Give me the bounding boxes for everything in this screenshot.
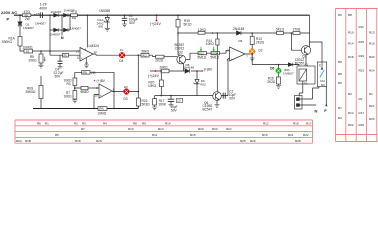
resistor R14 10K (216, 39, 219, 45)
wire R05 links (40, 76, 42, 109)
resistor R3 10K (73, 78, 77, 86)
svg-text:R12: R12 (263, 121, 269, 125)
capacitor C2 10uF (223, 93, 225, 99)
svg-text:P: P (7, 17, 10, 22)
svg-text:R22: R22 (303, 133, 309, 137)
svg-text:R10: R10 (128, 127, 134, 131)
wire R1 to sense row (20, 46, 24, 51)
svg-text:270Ω: 270Ω (293, 28, 301, 32)
svg-text:47Ω: 47Ω (24, 10, 31, 14)
diode D9 1N4007 (288, 63, 293, 67)
svg-text:220V AC: 220V AC (1, 10, 17, 15)
wire op2 output to D2 node (245, 54, 252, 58)
ground below zener (105, 28, 110, 31)
diode bridge top-left 1N4007 (54, 13, 59, 17)
svg-text:Q2: Q2 (179, 50, 183, 54)
resistor R15 5M1 (211, 52, 220, 55)
svg-text:D6: D6 (239, 39, 243, 43)
svg-text:D5: D5 (270, 67, 274, 71)
svg-text:2K2Ω: 2K2Ω (267, 80, 276, 84)
svg-text:R11: R11 (359, 25, 365, 29)
resistor R05 25K5 (39, 86, 43, 99)
svg-text:(+)8V: (+)8V (204, 67, 213, 71)
svg-text:HV: HV (124, 85, 128, 89)
wire pin10 link (94, 95, 99, 109)
svg-text:BC557: BC557 (295, 61, 305, 65)
wire Q2 collector to 5M1 row (186, 53, 190, 59)
svg-text:R25: R25 (240, 139, 246, 143)
svg-text:R13: R13 (369, 31, 375, 35)
bottom table row1 labels (37, 121, 312, 125)
bottom table row3 labels (55, 133, 309, 137)
svg-text:R7: R7 (338, 106, 342, 110)
wire 2M feedback row (75, 72, 114, 91)
node +24V top rail (150, 14, 161, 26)
svg-text:5K3Ω: 5K3Ω (142, 103, 151, 107)
node green mark R15 (213, 47, 215, 52)
wire R19 drop (177, 15, 179, 33)
wire bridge left drop (49, 15, 51, 51)
bottom table row2 labels (81, 127, 232, 131)
svg-text:R19: R19 (262, 133, 268, 137)
svg-text:A1: A1 (304, 63, 308, 67)
wire Q6 emitter ground stub (216, 100, 218, 104)
zener D7 9V2 (194, 79, 200, 84)
svg-text:50V: 50V (55, 75, 62, 79)
wire pin6 long vertical (228, 59, 230, 96)
svg-text:C3: C3 (177, 99, 181, 103)
svg-text:1N4007: 1N4007 (23, 26, 34, 30)
svg-text:14: 14 (94, 50, 98, 54)
wire sense row to U1 pin13 (33, 50, 81, 52)
svg-text:5K1Ω: 5K1Ω (184, 23, 193, 27)
svg-text:(R4): (R4) (99, 108, 104, 111)
svg-text:R21: R21 (369, 104, 375, 108)
wire Q6 collector lane (216, 53, 218, 91)
svg-text:R5: R5 (338, 60, 342, 64)
svg-text:D3: D3 (124, 97, 128, 101)
resistor 56k (141, 53, 149, 57)
op-amp U1A LM324 (80, 48, 93, 62)
svg-text:1N5369: 1N5369 (99, 9, 110, 13)
svg-text:(R6): (R6) (83, 71, 88, 74)
wire top +rail (14, 14, 310, 16)
svg-text:R4: R4 (103, 121, 107, 125)
ground below Q6 (215, 105, 220, 108)
resistor 6K8 (81, 86, 88, 90)
svg-text:2K2Ω: 2K2Ω (256, 41, 265, 45)
resistor R16 2K2 (277, 77, 281, 84)
wire pin12 row (50, 51, 80, 55)
svg-text:N: N (315, 108, 318, 113)
wire zener D7 drop (196, 71, 198, 96)
diode bridge top-right 1N4007 (64, 13, 69, 17)
diode bridge bottom-left 1N4007 (54, 28, 59, 32)
svg-text:R24: R24 (226, 127, 232, 131)
svg-text:NC: NC (321, 83, 326, 87)
svg-text:2N4148: 2N4148 (233, 27, 244, 31)
svg-text:R6: R6 (338, 13, 342, 17)
svg-text:R17: R17 (306, 121, 312, 125)
wire bottom rail (33, 106, 138, 109)
svg-text:100KΩ: 100KΩ (23, 46, 33, 50)
wire U1 pin4 supply drop (86, 15, 88, 47)
svg-text:1N4007: 1N4007 (283, 72, 294, 76)
svg-text:56kΩ: 56kΩ (142, 50, 150, 54)
svg-text:5M1Ω: 5M1Ω (198, 55, 207, 59)
svg-text:50V: 50V (229, 97, 236, 101)
svg-text:12KΩ: 12KΩ (198, 28, 207, 32)
svg-text:(+)24V: (+)24V (148, 74, 159, 78)
svg-text:(+)8V: (+)8V (97, 79, 106, 83)
svg-text:+: + (100, 93, 102, 97)
svg-text:R16: R16 (293, 121, 299, 125)
resistor R4 10M bottom rail (98, 107, 107, 111)
svg-text:2M: 2M (91, 71, 96, 75)
svg-text:R12: R12 (348, 111, 354, 115)
resistor 2M feedback (82, 71, 90, 75)
svg-text:R0A: R0A (16, 139, 22, 143)
svg-text:5W: 5W (99, 25, 104, 29)
svg-text:1N4007: 1N4007 (70, 26, 81, 30)
op-amp U1C (230, 47, 245, 61)
svg-text:R8: R8 (348, 13, 352, 17)
ground below R16 (276, 86, 281, 89)
wire U1B output down to rail (113, 92, 115, 109)
svg-text:R18: R18 (75, 139, 81, 143)
svg-text:7: 7 (246, 55, 248, 59)
svg-text:+C5: +C5 (34, 12, 40, 16)
svg-text:20KΩ: 20KΩ (160, 66, 169, 70)
connector J1 output plug (295, 96, 303, 110)
wire 12K row (178, 32, 310, 34)
svg-text:D2: D2 (259, 49, 263, 53)
svg-text:R13: R13 (158, 127, 164, 131)
svg-text:5K1Ω: 5K1Ω (276, 28, 285, 32)
resistor R1 530K (18, 37, 22, 47)
wire R17 stubs (154, 96, 156, 107)
svg-text:R3: R3 (82, 121, 86, 125)
svg-text:(+)24V: (+)24V (150, 22, 161, 26)
svg-text:R17: R17 (359, 111, 365, 115)
node +8V magenta (94, 79, 106, 83)
wire D5 lamp drop (278, 65, 280, 86)
resistor R8 47R 2W (22, 14, 30, 17)
svg-text:13: 13 (76, 50, 80, 54)
svg-text:F: F (324, 108, 327, 113)
wire R3 R7 node (75, 86, 99, 91)
svg-text:R10: R10 (348, 31, 354, 35)
wire neutral out (300, 104, 317, 106)
ground below C1 (122, 24, 127, 27)
resistor R17 200K (153, 99, 157, 105)
svg-text:-: - (231, 49, 232, 53)
wire C1 drop (124, 15, 126, 24)
svg-text:R9: R9 (338, 81, 342, 85)
svg-text:R11: R11 (152, 133, 158, 137)
bottom table row4 labels (16, 139, 301, 143)
svg-text:R23: R23 (359, 69, 365, 73)
svg-text:47Ω: 47Ω (71, 9, 77, 13)
svg-text:R7: R7 (81, 127, 85, 131)
svg-text:R14: R14 (348, 42, 354, 46)
svg-text:3W: 3W (72, 16, 77, 20)
relay K1 coil box (297, 66, 315, 84)
right table col3 labels (359, 25, 365, 127)
wire phase out (325, 87, 327, 107)
wire R14 drop (216, 33, 218, 52)
svg-text:200K: 200K (159, 103, 167, 107)
resistor R23 5K3 (136, 98, 140, 106)
svg-text:10MΩ: 10MΩ (98, 111, 107, 115)
svg-text:1N4007: 1N4007 (50, 32, 61, 36)
node green mark R12 (200, 47, 202, 52)
svg-text:+: + (81, 56, 83, 60)
svg-text:1N4007: 1N4007 (35, 22, 46, 26)
node 220V AC input (1, 10, 21, 21)
svg-text:R6: R6 (37, 121, 41, 125)
resistor R7 10K (73, 91, 77, 100)
wire R13 D2 chain (251, 33, 253, 58)
wire 56k junction drop to R23 (137, 55, 139, 98)
svg-text:R20: R20 (369, 55, 375, 59)
wire R7 ground stub (74, 99, 76, 100)
diode D6 2N4148 (237, 31, 242, 35)
wire connector to NC (300, 87, 320, 99)
zener D14 1N5369 24V (104, 17, 110, 22)
svg-text:R8: R8 (133, 121, 137, 125)
resistor R20 10K (159, 80, 163, 87)
svg-text:R1: R1 (369, 92, 373, 96)
wire U1A output row (93, 54, 156, 57)
node F output red (324, 104, 327, 113)
svg-text:20KΩ: 20KΩ (29, 59, 38, 63)
svg-text:LM324: LM324 (89, 44, 99, 48)
svg-text:D4: D4 (119, 59, 123, 63)
svg-text:C: C (319, 64, 322, 68)
wire U1 pin11 ground stub (84, 58, 89, 68)
wire Q3 emitter feed (309, 15, 311, 47)
svg-text:9V2: 9V2 (200, 82, 206, 86)
ground below R7 (72, 100, 77, 103)
relay contact (321, 62, 322, 70)
svg-text:R16: R16 (369, 42, 375, 46)
transistor Q6 BC547 (213, 92, 222, 101)
transistor Q2 BC557 (177, 55, 186, 64)
svg-text:R1B: R1B (25, 139, 31, 143)
svg-text:R5: R5 (55, 133, 59, 137)
relay contact arm cyan (320, 70, 325, 78)
svg-text:R18: R18 (348, 55, 354, 59)
wire input drop to D1 chain (19, 15, 21, 21)
svg-text:-: - (81, 50, 82, 54)
svg-text:10: 10 (95, 94, 99, 98)
svg-text:R9: R9 (142, 121, 146, 125)
resistor R13 2K2 (250, 37, 254, 45)
svg-text:R2: R2 (359, 97, 363, 101)
svg-text:R22: R22 (348, 123, 354, 127)
svg-text:R3: R3 (348, 92, 352, 96)
svg-text:2W: 2W (25, 17, 31, 21)
svg-text:BC547: BC547 (203, 108, 213, 112)
wire bridge N tap (61, 30, 63, 36)
svg-text:6K8Ω: 6K8Ω (81, 90, 90, 94)
diode bridge bottom-right 1N4007 (64, 28, 69, 32)
svg-text:LV: LV (120, 48, 123, 52)
diode D1 1N4007 (18, 22, 22, 26)
ground below C4 (58, 67, 63, 68)
resistor R2 100K (24, 49, 33, 53)
wire Q3 collector to coil (305, 55, 307, 66)
op-amp U1B (99, 84, 112, 98)
capacitor C5 1-2F 400V (40, 12, 42, 18)
svg-text:R24: R24 (369, 69, 375, 73)
right component table (336, 9, 378, 142)
wire Q3 base feed (291, 33, 301, 50)
wire D5 relay row (252, 58, 299, 66)
svg-text:R19: R19 (359, 54, 365, 58)
lamp D3 HV red (123, 88, 129, 94)
ground below R17 (152, 107, 157, 110)
wire bridge right vertical (69, 15, 71, 30)
wire D1 to R1 (19, 27, 21, 37)
resistor 20K (161, 69, 169, 73)
svg-text:A2: A2 (304, 82, 308, 86)
svg-text:1N4007: 1N4007 (51, 10, 62, 14)
svg-text:(R): (R) (64, 54, 68, 57)
capacitor C4 22uF (58, 61, 63, 63)
svg-text:2K2Ω: 2K2Ω (155, 59, 164, 63)
wire to 2K2 base resistor (164, 56, 177, 58)
wire C3 stubs (170, 96, 172, 105)
wire lower node row (155, 95, 228, 97)
right table col4 labels (369, 31, 375, 122)
lamp D4 LV red (119, 52, 125, 58)
wire 5M1 row (190, 50, 230, 53)
svg-text:R15: R15 (359, 40, 365, 44)
svg-text:50V: 50V (129, 21, 136, 25)
ground below D2 (250, 58, 255, 61)
svg-text:R3: R3 (67, 82, 71, 86)
wire 20K D8 row (150, 70, 202, 72)
relay contact box (317, 62, 326, 87)
resistor R3b 47R 3W (71, 14, 78, 17)
resistor 12K (198, 31, 205, 34)
wire A2 to connector (299, 81, 303, 97)
node green mark at R5 (44, 57, 46, 62)
wire zener 1N5369 drop (106, 15, 108, 28)
svg-text:R26: R26 (369, 117, 375, 121)
lamp D5 green (276, 68, 282, 74)
resistor 2K2 Q2 base (156, 55, 164, 58)
lamp D2 orange (249, 48, 255, 54)
svg-text:R4: R4 (338, 116, 342, 120)
svg-text:R8: R8 (338, 72, 342, 76)
wire C4 drop (59, 55, 61, 66)
right table col1 labels (338, 13, 342, 120)
resistor R19 5K1 (176, 20, 180, 28)
resistor 270R (293, 32, 300, 35)
svg-text:R2S: R2S (96, 139, 102, 143)
capacitor C3 10uF (168, 99, 174, 101)
svg-text:50V: 50V (171, 108, 178, 112)
wire bridge mid vertical (61, 15, 63, 30)
svg-text:R15: R15 (190, 133, 196, 137)
wire bridge bottom (50, 29, 70, 31)
resistor R12 5M1 (198, 52, 207, 55)
wire Q2 collector drop (182, 64, 184, 71)
capacitor C1 100uF 50V (122, 18, 127, 20)
right table col2 labels (348, 13, 354, 127)
wire U1B output row through D3 (112, 91, 138, 93)
svg-text:10KΩ: 10KΩ (206, 42, 215, 46)
wire relay C feed (310, 42, 323, 62)
svg-text:R1: R1 (45, 121, 49, 125)
svg-text:R26: R26 (250, 139, 256, 143)
node +24V mid (148, 70, 159, 78)
resistor 5K1 (277, 32, 284, 35)
svg-text:R25: R25 (359, 123, 365, 127)
resistor pin12 series (63, 53, 69, 57)
svg-text:-: - (100, 86, 101, 90)
svg-text:R21: R21 (288, 133, 294, 137)
wire R5 stub (40, 51, 42, 65)
svg-text:1N4148: 1N4148 (184, 66, 195, 70)
wire R20 vertical links (160, 73, 162, 96)
svg-text:10KΩ: 10KΩ (64, 95, 73, 99)
ground below R5 (39, 65, 44, 68)
svg-text:R23: R23 (212, 127, 218, 131)
svg-text:10KΩ: 10KΩ (148, 84, 157, 88)
svg-text:R11: R11 (143, 54, 148, 57)
transistor Q3 BC557 (301, 46, 310, 55)
svg-text:12: 12 (77, 56, 81, 60)
svg-text:530KΩ: 530KΩ (2, 40, 12, 44)
svg-text:25K5Ω: 25K5Ω (26, 90, 36, 94)
svg-text:R28: R28 (295, 139, 301, 143)
svg-text:R2: R2 (74, 121, 78, 125)
svg-text:5M1Ω: 5M1Ω (211, 55, 220, 59)
svg-text:N: N (61, 35, 64, 40)
wire R19 to Q2 emitter (178, 33, 180, 55)
ground below C3 (169, 105, 174, 106)
svg-text:R20: R20 (198, 127, 204, 131)
svg-text:R14: R14 (165, 121, 171, 125)
bottom component table (15, 120, 313, 143)
diode D8 1N4148 (185, 69, 190, 73)
resistor R5 20K (39, 54, 43, 63)
svg-text:+: + (231, 57, 233, 61)
svg-text:400V: 400V (39, 7, 48, 11)
node +8V magenta mid (201, 67, 213, 72)
